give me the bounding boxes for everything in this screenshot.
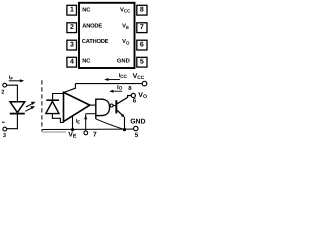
svg-text:7: 7 (140, 24, 144, 31)
svg-text:6: 6 (140, 42, 144, 49)
svg-text:VO: VO (122, 39, 130, 45)
svg-text:3: 3 (70, 42, 74, 49)
svg-text:VE: VE (68, 132, 77, 140)
svg-text:2: 2 (1, 90, 4, 96)
svg-text:1: 1 (70, 7, 74, 14)
svg-text:4: 4 (70, 59, 74, 66)
svg-text:VO: VO (138, 92, 147, 100)
svg-text:VE: VE (122, 24, 129, 30)
svg-text:IF: IF (9, 75, 14, 81)
svg-text:NC: NC (82, 6, 91, 13)
svg-text:CATHODE: CATHODE (82, 38, 109, 45)
svg-text:7: 7 (93, 132, 97, 139)
svg-text:5: 5 (135, 132, 139, 139)
svg-text:3: 3 (3, 133, 6, 139)
svg-text:GND: GND (130, 118, 145, 125)
svg-text:VCC: VCC (120, 7, 131, 13)
svg-text:ICC: ICC (119, 73, 128, 80)
svg-text:ANODE: ANODE (82, 23, 102, 30)
svg-text:5: 5 (140, 59, 144, 66)
svg-text:2: 2 (70, 24, 74, 31)
svg-text:GND: GND (117, 57, 130, 64)
svg-text:NC: NC (82, 57, 91, 64)
svg-text:6: 6 (133, 97, 137, 104)
svg-text:IE: IE (76, 118, 81, 124)
svg-text:8: 8 (140, 7, 144, 14)
svg-text:IO: IO (117, 85, 123, 92)
